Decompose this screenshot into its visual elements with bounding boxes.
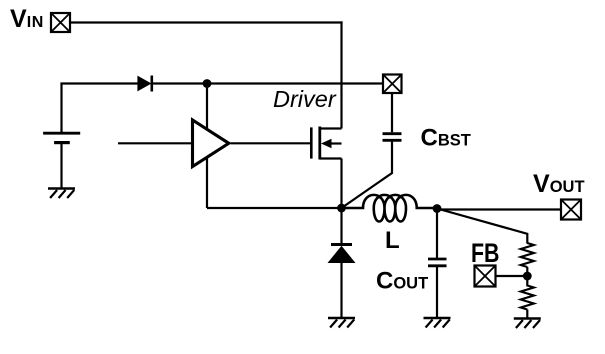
label CBST bbox=[421, 125, 471, 152]
wire node to COUT bbox=[436, 209, 438, 259]
capacitor COUT bbox=[428, 259, 447, 266]
capacitor CBST bbox=[383, 134, 402, 141]
terminal BST bbox=[383, 75, 402, 94]
wire COUT to ground bbox=[436, 267, 438, 317]
wire node A to BST terminal bbox=[207, 82, 383, 84]
wire FB terminal to node bbox=[496, 275, 528, 277]
label VIN bbox=[10, 5, 44, 33]
wire node A down to driver U1 bbox=[206, 84, 208, 129]
wire R1 to FB node bbox=[526, 267, 528, 276]
svg-text:VIN: VIN bbox=[10, 5, 44, 33]
ground battery bbox=[48, 189, 75, 199]
ground COUT bbox=[424, 318, 451, 328]
inductor L1 bbox=[342, 195, 438, 222]
transistor Q1 bbox=[311, 127, 341, 160]
resistor R1 bbox=[521, 243, 534, 267]
wire D1 to node A bbox=[152, 82, 207, 84]
driver buffer U1 bbox=[193, 120, 229, 167]
wire switch rail bbox=[207, 207, 342, 209]
wire battery to ground bbox=[60, 144, 62, 188]
wire driver input stub bbox=[118, 142, 192, 144]
wire R2 to ground bbox=[526, 310, 528, 318]
wire SW node to schottky D2 bbox=[340, 208, 342, 244]
svg-text:FB: FB bbox=[471, 238, 500, 268]
wire CBST to switch node bbox=[342, 142, 393, 209]
wire battery to diode D1 bbox=[62, 84, 139, 133]
resistor R2 bbox=[521, 276, 534, 310]
terminal VIN bbox=[51, 13, 70, 32]
wire driver output to Q1 gate bbox=[231, 142, 311, 144]
wire VIN top rail bbox=[70, 21, 343, 23]
wire driver bottom to switch rail bbox=[206, 158, 208, 208]
svg-text:VOUT: VOUT bbox=[533, 170, 585, 198]
svg-text:CBST: CBST bbox=[421, 125, 471, 152]
terminal FB bbox=[475, 266, 496, 287]
wire Q1 source to switch node bbox=[340, 159, 342, 209]
node SW junction bbox=[337, 204, 346, 213]
node VOUT junction bbox=[433, 204, 442, 213]
terminal VOUT bbox=[561, 200, 581, 220]
node FB junction bbox=[523, 272, 532, 281]
wire D2 to ground bbox=[340, 263, 342, 317]
label FB bbox=[471, 238, 500, 268]
battery B1 bbox=[43, 133, 80, 142]
wire BST terminal to CBST bbox=[391, 93, 393, 132]
node A junction bbox=[203, 79, 212, 88]
label COUT bbox=[376, 268, 428, 295]
wire inductor node to VOUT terminal bbox=[437, 208, 561, 210]
schottky diode D2 bbox=[328, 245, 356, 264]
ground R2 bbox=[514, 319, 541, 329]
label L bbox=[385, 227, 400, 254]
label Driver bbox=[273, 86, 337, 112]
wire feedback tap bbox=[437, 209, 527, 244]
diode D1 bbox=[137, 76, 151, 92]
svg-text:COUT: COUT bbox=[376, 268, 428, 295]
ground D2 bbox=[328, 318, 355, 328]
label VOUT bbox=[533, 170, 585, 198]
svg-text:L: L bbox=[385, 227, 400, 254]
svg-text:Driver: Driver bbox=[273, 86, 337, 112]
wire VIN rail drop to Q1 drain bbox=[340, 21, 342, 128]
